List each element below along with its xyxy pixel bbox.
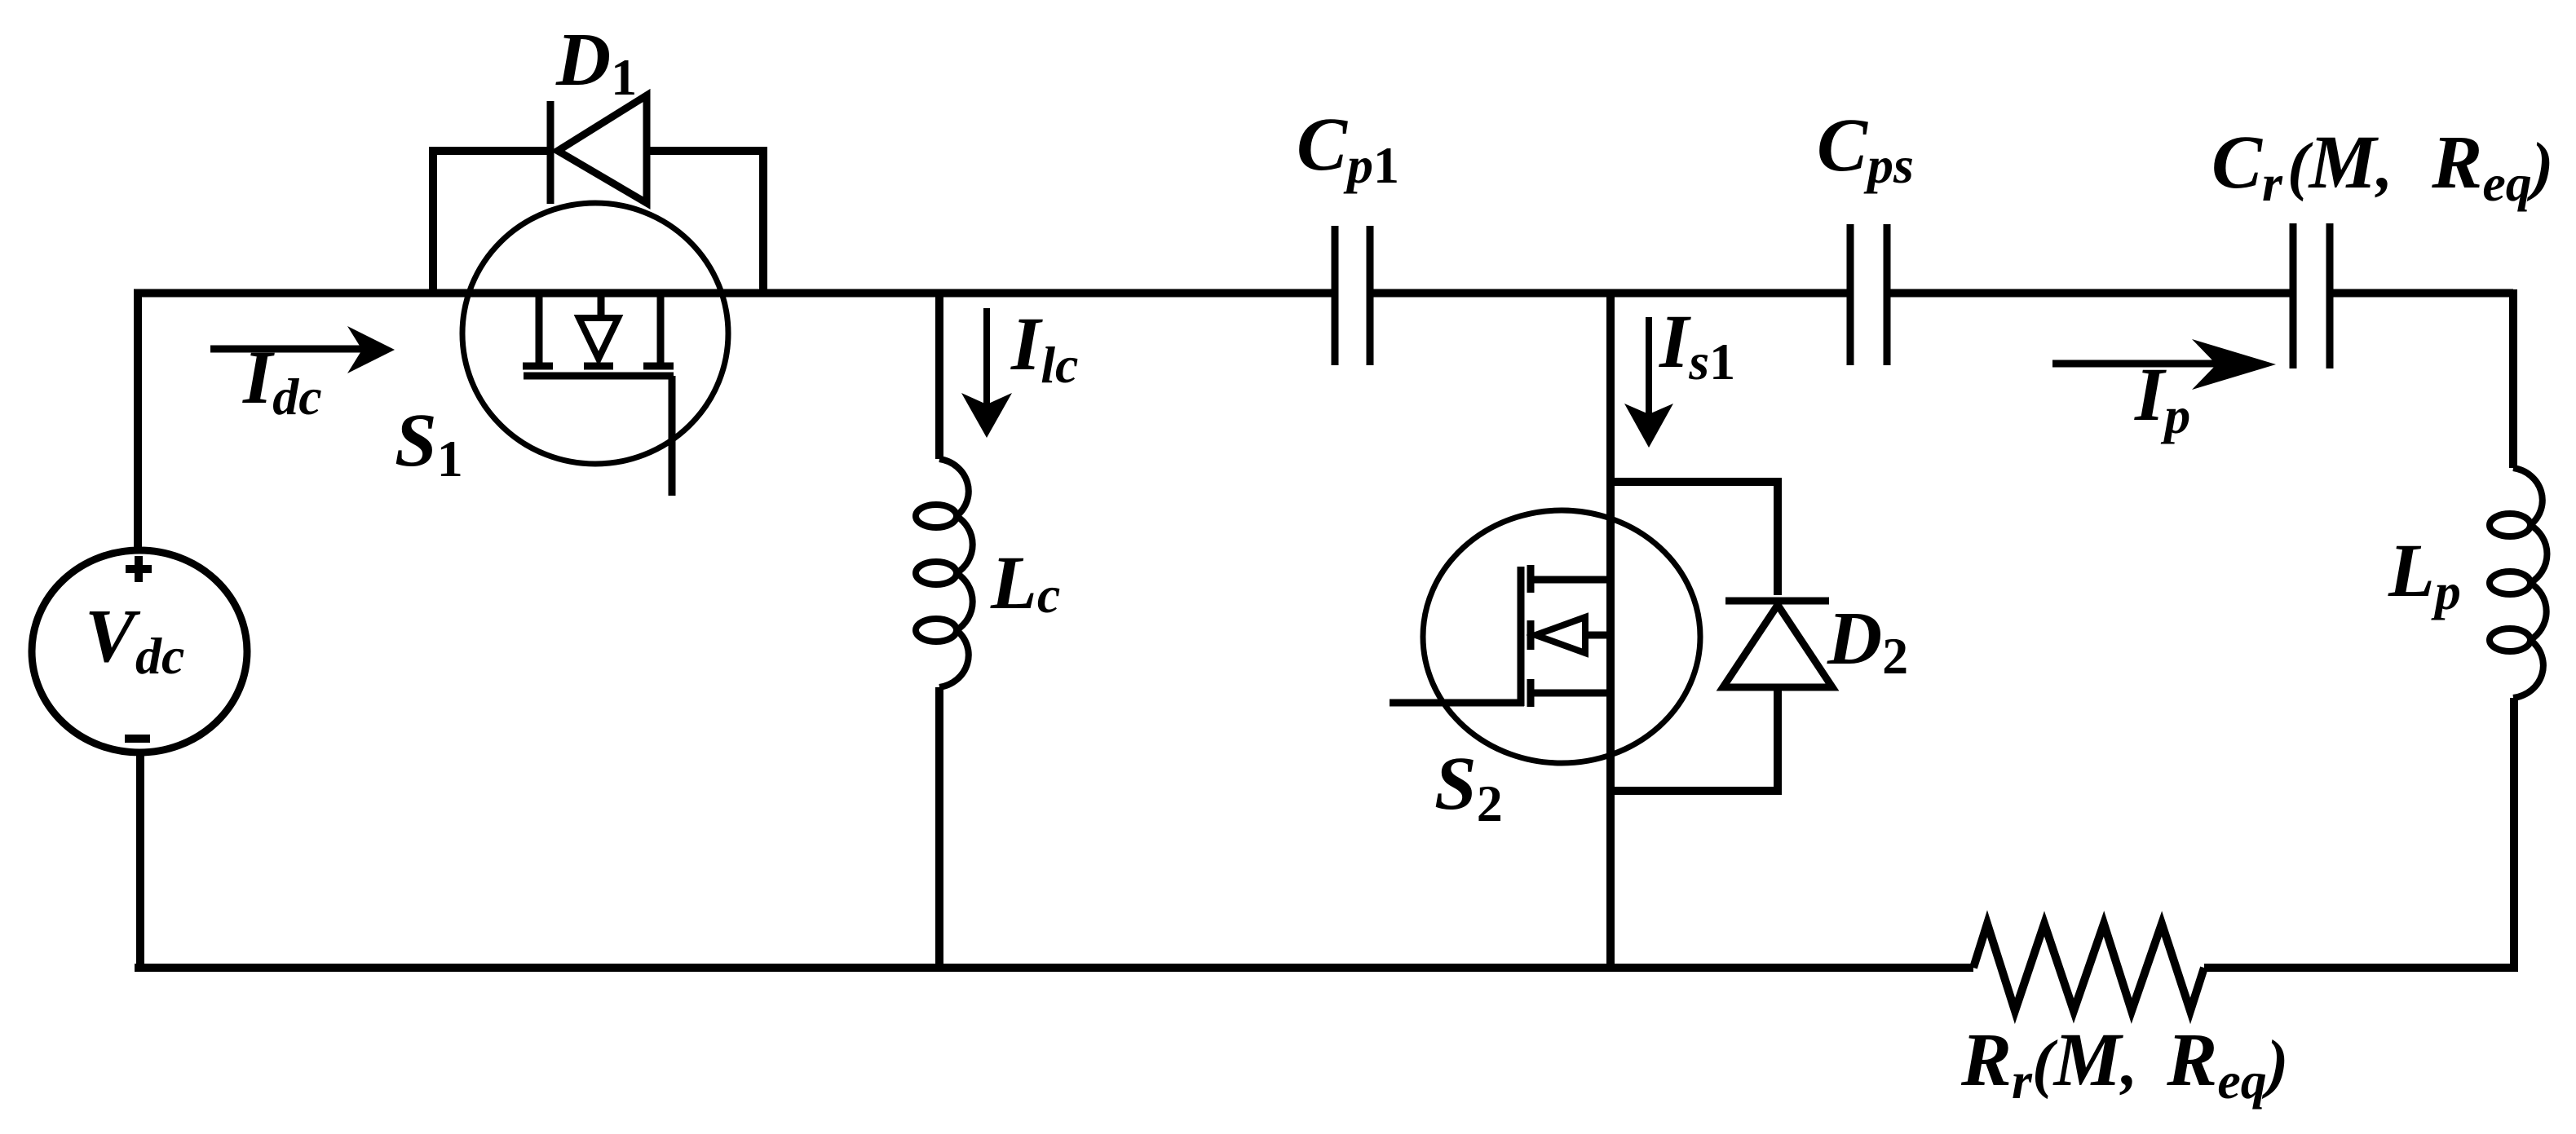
wire S2 branch vertical [1606,289,1615,972]
mosfet S1 gate bar [524,373,674,380]
mosfet S2 circle [1423,510,1700,763]
capacitor C_p1 left plate [1332,226,1339,365]
wire top rail segment 4 [2330,289,2513,298]
inductor L_p coil [2490,468,2547,698]
mosfet S2 source lead [1534,690,1611,697]
svg-text:Is1: Is1 [1659,300,1735,391]
svg-text:Ilc: Ilc [1010,302,1078,394]
diode D2 triangle [1723,605,1832,687]
mosfet S2 body lead [1585,632,1611,639]
wire L_c branch lower [935,687,943,972]
mosfet S2 source contact bar [1527,679,1535,707]
mosfet S2 body contact bar [1527,620,1535,650]
svg-text:Lp: Lp [2388,529,2461,620]
current arrow I_s1 [1646,317,1652,417]
mosfet S2 gate lead [1390,699,1524,707]
wire left vertical lower [136,755,144,972]
wire right vertical lower [2510,698,2518,972]
mosfet S2 body arrow [1535,617,1585,653]
current arrow I_p [2052,360,2220,368]
capacitor C_r right plate [2326,223,2334,368]
wire top rail segment 3 [1887,289,2293,298]
diode D1 cathode bar [547,101,555,204]
mosfet S1 source lead [657,293,665,364]
voltage source V_dc [32,550,247,752]
wire L_c branch upper [935,289,943,459]
capacitor C_ps left plate [1847,224,1854,365]
mosfet S2 drain lead [1534,576,1611,584]
wire left vertical upper [134,289,142,551]
mosfet S2 drain contact bar [1527,565,1535,593]
mosfet S1 drain lead [536,293,543,364]
svg-text:D1: D1 [555,18,637,106]
svg-text:Cr(M, Req): Cr(M, Req) [2211,121,2553,212]
diode D2 cathode bar [1725,598,1829,605]
mosfet S1 drain contact bar [523,363,553,370]
mosfet S1 body contact bar [584,363,613,370]
svg-text:Cps: Cps [1817,104,1914,194]
svg-text:Rr(M, Req): Rr(M, Req) [1960,1018,2288,1110]
inductor L_c coil [916,459,973,687]
svg-text:D2: D2 [1827,597,1908,685]
wire top rail segment 1 [134,289,1335,298]
svg-text:Lc: Lc [990,541,1060,625]
V_dc minus sign [125,735,150,743]
mosfet S2 gate bar [1518,567,1525,706]
svg-text:S1: S1 [395,399,463,488]
current arrow I_dc [210,346,362,353]
wire bottom rail left segment [135,964,1973,972]
svg-text:Vdc: Vdc [85,594,184,685]
mosfet S1 gate lead [669,376,676,496]
diode D2 loop wire [1611,482,1778,791]
mosfet S1 circle [462,203,728,464]
current arrow I_lc [983,308,990,412]
capacitor C_r left plate [2290,223,2297,368]
wire top rail segment 2 [1370,289,1850,298]
V_dc plus sign [126,556,152,582]
wire right vertical upper [2509,289,2517,468]
resistor R_r zigzag [1973,924,2204,1011]
capacitor C_p1 right plate [1367,226,1374,365]
svg-text:Cp1: Cp1 [1297,103,1399,194]
mosfet S1 source contact bar [643,363,674,370]
diode D1 loop wire [433,151,763,293]
wire bottom rail right segment [2204,964,2517,972]
mosfet S1 body arrow [579,318,618,359]
diode D1 triangle [558,95,647,203]
svg-text:S2: S2 [1434,742,1503,832]
capacitor C_ps right plate [1884,224,1891,365]
mosfet S1 body lead [598,293,605,319]
